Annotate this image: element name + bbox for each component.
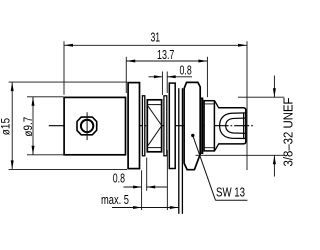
bayonet pin circle	[81, 120, 93, 132]
svg-text:SW 13: SW 13	[216, 184, 245, 199]
SW 13 leader dot	[191, 134, 194, 137]
bayonet crosshair	[86, 112, 88, 140]
center line	[49, 125, 254, 127]
threaded section 3/8-32	[204, 101, 214, 151]
rear chamfer top	[215, 101, 219, 108]
dim max 5: extension line	[141, 170, 143, 210]
svg-text:31: 31	[151, 30, 161, 45]
dim 31: extension line left	[63, 41, 65, 94]
dim 13.7: extension lines	[125, 57, 127, 93]
svg-text:max. 5: max. 5	[101, 192, 129, 207]
svg-text:0.8: 0.8	[113, 171, 125, 186]
dim 0.8 top: dimension line + outside arrows	[149, 76, 163, 78]
dim 0.8 top: extension lines	[161, 72, 163, 96]
mounting panel wall	[178, 88, 180, 214]
dim dia 9.7: extension lines	[27, 96, 63, 98]
dim max 5: dimension line, two right arrows	[112, 207, 178, 209]
bayonet stud boss	[77, 117, 97, 135]
dim dia 9.7: dimension line	[32, 97, 34, 155]
SW 13 leader underline	[216, 199, 248, 201]
hex nut SW13	[184, 82, 200, 169]
washer C	[169, 83, 175, 168]
rear face line	[243, 113, 245, 139]
dim 0.8 bottom: extension line right	[146, 158, 148, 191]
lock washer	[147, 100, 161, 152]
dim 31: extension line right	[246, 41, 248, 170]
svg-text:3/8–32 UNEF: 3/8–32 UNEF	[281, 98, 296, 167]
rear contact body	[218, 108, 246, 144]
dim 13.7: dimension line	[126, 60, 207, 62]
dim dia 15: extension lines	[9, 81, 127, 83]
dim 3/8-32 UNEF: extension lines	[238, 96, 284, 98]
washer A	[142, 96, 144, 156]
svg-text:ø15: ø15	[0, 118, 13, 135]
solder slot outer curve	[220, 113, 246, 139]
connector body (BNC coupling)	[64, 97, 125, 154]
rear chamfer bottom	[215, 144, 219, 151]
solder slot inner curve	[226, 118, 246, 133]
svg-text:0.8: 0.8	[180, 62, 192, 77]
dim dia 15: dimension line	[11, 82, 13, 169]
svg-text:ø9.7: ø9.7	[21, 117, 35, 137]
dim 0.8 bottom: dimension line + outside arrows	[124, 186, 142, 188]
SW 13 leader line	[193, 137, 215, 200]
extension line below washer B	[166, 150, 168, 210]
flange disc	[128, 83, 139, 169]
collar washer	[201, 98, 203, 153]
svg-text:13.7: 13.7	[157, 47, 174, 62]
dim 31: dimension line	[64, 44, 247, 46]
dim 3/8-32 UNEF: dimension line arrows	[273, 76, 275, 98]
washer B	[164, 96, 167, 156]
